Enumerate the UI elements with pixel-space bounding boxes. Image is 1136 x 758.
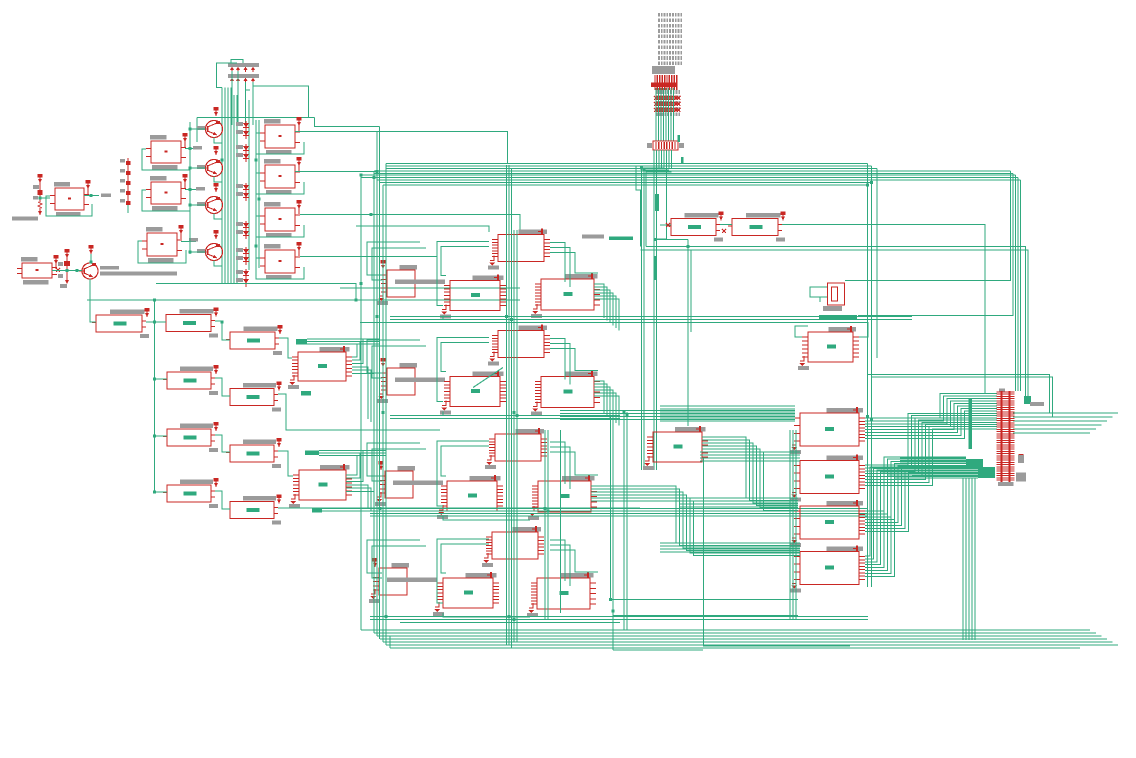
IC small row1 <box>400 265 417 270</box>
transistor Q5 <box>82 263 98 279</box>
buffer L2 <box>180 309 214 314</box>
pwr Q4 <box>214 230 219 234</box>
pwr small row1 <box>381 260 386 264</box>
wire header left drop <box>217 63 238 88</box>
wire cell left <box>367 340 420 373</box>
diode D11 <box>236 270 243 274</box>
wire into R1 <box>660 224 671 226</box>
buffer L9 <box>243 496 276 501</box>
junction <box>623 411 626 414</box>
wire ubox right3 <box>550 550 598 572</box>
wire x688 down <box>687 240 689 427</box>
wire M3 loops <box>795 326 808 337</box>
diode D10 <box>236 256 243 260</box>
junction <box>516 414 519 417</box>
bus row1 bottom <box>390 316 912 318</box>
wire L9 out <box>278 507 640 509</box>
wire cell bottom <box>443 516 530 520</box>
pwr Q1 <box>214 107 219 111</box>
junction <box>544 507 547 510</box>
wire U1 out <box>84 195 99 197</box>
buffer L6 <box>180 424 213 429</box>
teal block J3 top <box>1024 396 1031 404</box>
IC U9 <box>264 244 281 249</box>
bus left drops <box>360 175 362 630</box>
IC u-box row3 <box>516 429 545 434</box>
wire trunk to L2 <box>146 321 166 323</box>
wire cell left2 <box>372 546 426 578</box>
wire y300 long <box>87 299 520 301</box>
wire trunk to L6 <box>155 435 168 437</box>
junction <box>866 415 869 418</box>
wire Q5 down <box>90 279 92 322</box>
wire cell left2 <box>372 449 426 481</box>
crystal X1 <box>828 283 845 305</box>
wire U9 out <box>300 256 437 258</box>
label Q4 <box>197 249 205 253</box>
wire B1 left <box>40 197 50 199</box>
wire U2 out <box>185 148 196 150</box>
IC mid row3 <box>470 476 501 481</box>
wire ubox right2 <box>550 545 570 586</box>
stair cells row1 <box>594 284 604 318</box>
wire L7 to M2b <box>278 451 293 476</box>
IC M4 <box>675 427 705 432</box>
wire Q base <box>190 128 206 130</box>
wire y226 <box>356 226 489 232</box>
wire y246-250 <box>646 247 1026 397</box>
wire ubox right2 <box>550 344 570 385</box>
wire cell bottom <box>443 316 530 320</box>
wire Q col vertical <box>189 122 191 254</box>
stair row3 to S <box>591 486 800 543</box>
wire ubox right3 <box>550 253 598 274</box>
wire under U1 <box>46 196 92 216</box>
label long bottom left <box>12 217 38 221</box>
wire under U3 <box>142 190 190 211</box>
label Q2 <box>197 165 205 169</box>
junction trunk <box>153 435 156 438</box>
junction U3 out <box>189 188 192 191</box>
junction <box>870 418 873 421</box>
buffer L8 <box>180 480 213 485</box>
wire Q collector <box>214 177 223 183</box>
transistor Q4 <box>206 244 223 261</box>
wire y599 y615 <box>611 599 799 601</box>
teal block 2 <box>978 467 995 478</box>
wire ubox right1 <box>550 442 565 484</box>
label strip row1 <box>395 280 445 285</box>
wire R1-R2 <box>720 224 732 226</box>
fan S3 <box>865 457 966 511</box>
junction bus <box>373 176 376 179</box>
parts between U5 and Q5 <box>65 249 70 253</box>
capacitor C1 chain <box>38 174 43 178</box>
tower left loops <box>642 168 665 470</box>
diode D7 <box>236 222 243 226</box>
IC small row2 <box>400 363 417 368</box>
junction <box>513 411 516 414</box>
wire x703 <box>702 457 850 646</box>
wire trunk x506-517 <box>506 165 508 645</box>
buffer L1 <box>110 310 145 315</box>
diode D12 <box>236 278 243 282</box>
connector comb 1 <box>654 75 656 90</box>
pwr small row3 <box>379 461 384 465</box>
wire U7 out <box>295 171 377 173</box>
diode D5 <box>236 184 243 188</box>
diode D1 <box>236 122 243 126</box>
pwr small row4 <box>373 558 378 562</box>
gray block tower <box>652 66 675 74</box>
label right of Q5 1 <box>100 266 119 270</box>
IC u-box row2 <box>519 326 548 331</box>
wire cell loop1 <box>437 338 489 402</box>
buffer R1 <box>685 213 719 218</box>
wire cell left <box>367 242 420 275</box>
wire ubox right1 <box>550 243 565 283</box>
wire R2 out <box>782 225 985 394</box>
wire Q base <box>190 251 206 253</box>
IC U2 <box>150 135 167 140</box>
bus row2 bottom <box>390 415 620 417</box>
bus drops x1049 <box>868 375 1050 414</box>
junction trunk <box>153 491 156 494</box>
pwr J3 <box>1019 454 1024 458</box>
bus label M1 <box>296 339 307 345</box>
wire ubox right2 <box>550 447 570 489</box>
wire cell loop1 <box>437 539 489 603</box>
wire cell bottom <box>443 613 530 617</box>
buffer R2 <box>746 213 781 218</box>
IC right row4 <box>561 573 594 578</box>
connector J3 <box>999 389 1005 392</box>
diode D3 <box>236 145 243 149</box>
giant loop bottoms <box>361 629 1090 631</box>
bus mid drops x867 <box>867 164 869 588</box>
IC M3 <box>828 327 856 332</box>
fan S4 <box>865 467 978 556</box>
transistor Q1 <box>206 121 223 138</box>
wire trunk to L8 <box>155 491 168 493</box>
IC S3 <box>827 501 864 506</box>
connector comb 2 <box>654 96 658 100</box>
gray bar y234 <box>582 235 604 239</box>
bus mid3 out <box>322 508 372 510</box>
wire trunk x560 <box>560 430 562 613</box>
IC S4 <box>827 547 864 552</box>
bus y545 right <box>660 542 800 544</box>
wire cell loop2 <box>441 247 489 276</box>
bus M2 out <box>319 450 386 452</box>
wire cell loop1 <box>437 441 489 506</box>
IC mid row2 <box>473 372 504 377</box>
IC U6 <box>264 119 281 124</box>
IC right row3 <box>562 476 595 481</box>
label right of Q5 2 <box>100 272 177 276</box>
wire Q collector <box>214 214 223 220</box>
stair M4 out <box>702 437 798 498</box>
IC U4 <box>146 227 163 232</box>
wire cell left <box>367 540 420 573</box>
diode D8 <box>236 230 243 234</box>
label right of U4 <box>189 238 198 242</box>
junction <box>376 315 379 318</box>
label right of U3 <box>196 187 205 191</box>
junction <box>355 299 358 302</box>
wire xtal <box>810 287 827 297</box>
junction <box>626 414 629 417</box>
IC small row3 <box>398 466 415 471</box>
diode D9 <box>236 248 243 252</box>
wire cell loop2 <box>441 343 489 372</box>
bus label mid1 <box>301 391 311 396</box>
label strip row3 <box>393 481 443 486</box>
pwr Q2 <box>214 146 219 150</box>
wire L6-L7 <box>215 435 230 452</box>
label Q1 <box>197 126 205 130</box>
wire cell left <box>367 443 420 476</box>
wire trunk to L4 <box>155 378 168 380</box>
junction <box>547 510 550 513</box>
label strip row4 <box>387 578 437 583</box>
pwr Q5 <box>89 245 94 249</box>
wire Q base <box>190 204 206 206</box>
teal block 1 <box>966 459 983 468</box>
bus into blocks <box>900 457 966 459</box>
buffer L3 <box>244 327 278 332</box>
wire cell loop1 <box>437 242 489 306</box>
wire cell loop2 <box>441 544 489 573</box>
wire long horiz y117 <box>197 116 315 118</box>
tower labels 2 <box>656 90 658 94</box>
wire bus from header down <box>231 71 233 125</box>
junctions mid <box>255 159 258 162</box>
label right of U2 <box>193 146 202 150</box>
left bundle into S boxes <box>792 430 794 620</box>
wire header long right <box>246 82 251 90</box>
bus label mid <box>819 315 857 320</box>
wire U5 to Q5 <box>52 270 82 272</box>
wire bottom mid loops <box>443 613 530 617</box>
label Q3 <box>197 202 205 206</box>
bus entry label stack <box>658 13 660 17</box>
wire ubox right3 <box>550 452 598 475</box>
buffer L7 <box>243 440 276 445</box>
wire header to right <box>253 82 309 118</box>
wire bus verticals <box>221 88 223 284</box>
wire ubox right2 <box>550 248 570 288</box>
IC S1 <box>827 408 864 413</box>
bus label mid3 <box>312 508 322 513</box>
wire y239 <box>655 239 688 241</box>
buffer L4 <box>180 367 213 372</box>
bus row4 bottom <box>370 616 868 618</box>
bus y410 right <box>660 405 795 407</box>
IC U1 <box>54 182 70 187</box>
wire ubox right3 <box>550 349 598 371</box>
wire cell bottom <box>443 412 530 416</box>
wire U8 out <box>300 215 520 233</box>
wire cell loop2 <box>441 446 489 476</box>
IC M2 <box>320 465 349 470</box>
junction trunk <box>153 378 156 381</box>
pwr Q3 <box>214 183 219 187</box>
pwr small row2 <box>381 358 386 362</box>
junction <box>379 507 382 510</box>
junction <box>382 411 385 414</box>
IC right row1 <box>565 274 598 279</box>
wire ubox right1 <box>550 339 565 380</box>
wire U3 out <box>185 189 202 191</box>
wire under U2 <box>142 149 190 170</box>
wire trunk x624-627 <box>623 412 625 630</box>
bus y500 right <box>680 497 798 499</box>
junction <box>385 615 388 618</box>
wire trunk x610-613 <box>610 415 612 600</box>
tower thick segs <box>678 135 681 142</box>
stair cells row2 <box>594 381 604 413</box>
bus label mid2 <box>305 451 319 456</box>
wire under U7 <box>256 173 304 194</box>
IC U8 <box>264 202 281 207</box>
fan S2 <box>865 414 997 466</box>
bus top horizontal <box>386 163 868 165</box>
wire y283 long <box>156 284 356 301</box>
junction U1 out <box>90 194 93 197</box>
IC U3 <box>150 176 167 181</box>
wire L4-L5 <box>215 378 230 396</box>
junction trunk <box>153 321 156 324</box>
wire L2-L3 <box>215 321 230 340</box>
wire ubox right1 <box>550 540 565 581</box>
wire y288 <box>340 287 520 289</box>
resistor pack column RN1 <box>120 159 125 163</box>
IC S2 <box>827 456 864 461</box>
wire header loop <box>231 60 243 64</box>
transistor Q2 <box>206 160 223 177</box>
IC U7 <box>264 159 281 164</box>
IC u-box row4 <box>513 527 542 532</box>
wire mid verticals 2 <box>255 120 257 268</box>
junction <box>505 315 508 318</box>
diode D6 <box>236 192 243 196</box>
bus right loops top <box>1013 412 1118 414</box>
wire L1 in <box>90 321 96 323</box>
xmarks R1 <box>666 223 670 227</box>
connector header J1 <box>228 63 259 67</box>
wire under U9 <box>256 258 304 279</box>
junction y300 <box>153 299 156 302</box>
wires below tower <box>658 150 660 168</box>
label below J3 <box>1016 473 1026 482</box>
wire L5 to M2 <box>278 394 440 430</box>
junction tower <box>654 238 657 241</box>
wire diag row2 <box>473 368 503 388</box>
junction <box>687 245 690 248</box>
connector J2 <box>653 141 678 150</box>
wire under U6 <box>256 133 304 154</box>
wire L3 to M1 <box>279 338 292 358</box>
wire U6 out <box>295 132 508 164</box>
wire Q base <box>190 167 206 169</box>
stair M1 right <box>352 344 357 357</box>
wire left col <box>127 205 129 213</box>
IC M1 <box>320 347 350 352</box>
wire cell left2 <box>372 346 426 378</box>
label strip row2 <box>395 378 445 383</box>
label right of U1 <box>101 194 111 198</box>
junction <box>510 318 513 321</box>
wire trunk x154 <box>154 300 156 492</box>
label right J3 <box>1030 402 1044 406</box>
bus label y237 <box>609 237 633 241</box>
wire under U8 <box>256 216 304 237</box>
IC right row2 <box>565 372 598 377</box>
bus row3 bottom <box>370 508 868 510</box>
wire L8-L9 <box>215 491 230 509</box>
junction <box>513 618 516 621</box>
junction <box>360 282 363 285</box>
IC u-box row1 <box>519 230 548 235</box>
junction <box>508 615 511 618</box>
teal vbar x969 <box>969 399 973 449</box>
diode D2 <box>236 130 243 134</box>
IC small row4 <box>392 563 409 568</box>
stair M2 right <box>346 456 357 475</box>
buffer L5 <box>243 383 276 388</box>
wire under U4 <box>138 241 186 263</box>
bus right turns <box>845 171 1011 280</box>
wire cell left2 <box>372 248 426 280</box>
tower greens <box>655 88 657 141</box>
junction U2 out <box>189 147 192 150</box>
wire Q collector <box>214 138 223 144</box>
wire Q collector <box>214 261 223 267</box>
wire U4 out <box>181 241 196 243</box>
bus M1 out <box>307 338 380 340</box>
junction x610 <box>609 598 612 601</box>
IC U5 <box>21 257 38 262</box>
IC mid row4 <box>466 573 497 578</box>
IC mid row1 <box>473 276 504 281</box>
fan S1 <box>865 394 997 419</box>
diode D4 <box>236 153 243 157</box>
bus y455 right <box>700 451 800 453</box>
vert bundle below blocks <box>962 478 964 640</box>
wire trunk x544-548 <box>544 430 546 620</box>
transistor Q3 <box>206 197 223 214</box>
